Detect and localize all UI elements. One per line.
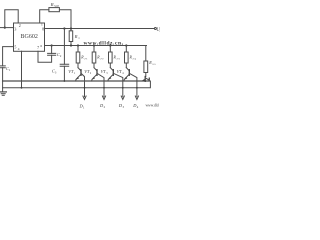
- wire pin3 input: [0, 27, 14, 29]
- node junction Rscp / net A: [70, 27, 72, 29]
- node junction pin3: [4, 27, 6, 29]
- IC U1 BG602 timer: [14, 23, 45, 51]
- svg-text:7: 7: [37, 45, 39, 50]
- wire pin4 stub: [21, 51, 23, 88]
- transistor Q1 VT1: [68, 63, 84, 88]
- resistor Rscp: [49, 2, 60, 12]
- resistor R2-3: [109, 46, 121, 64]
- terminal D2 arrow: [99, 87, 106, 109]
- node junction R1 / net B: [70, 44, 72, 46]
- node junction R2-4 / net B: [125, 44, 127, 46]
- svg-text:6: 6: [40, 44, 42, 48]
- terminal D4 arrow: [132, 87, 139, 109]
- resistor R2-1: [76, 46, 88, 64]
- terminal D1 arrow: [79, 87, 87, 110]
- node junction R2-3 / net B: [109, 44, 111, 46]
- wire pin7 loop: [38, 51, 52, 62]
- node junction R2-2 / net B: [93, 44, 95, 46]
- svg-text:SCP: SCP: [54, 5, 59, 8]
- transistor Q3 VT3: [101, 63, 123, 88]
- svg-text:3: 3: [14, 27, 16, 32]
- svg-text:BG602: BG602: [21, 34, 38, 40]
- svg-text:5: 5: [14, 45, 16, 50]
- svg-text:2: 2: [19, 23, 21, 28]
- wire pin2 feedback loop: [5, 10, 18, 28]
- wire net B pin6 rail: [45, 45, 147, 47]
- resistor R2-5: [144, 61, 156, 73]
- wire net B down to R2-5: [145, 46, 147, 62]
- wire pin5: [3, 47, 14, 66]
- svg-text:R: R: [50, 2, 54, 7]
- node junction R2-1 / net B: [77, 44, 79, 46]
- capacitor C3: [52, 29, 69, 82]
- resistor R2-2: [92, 46, 104, 64]
- node U_o terminal: [154, 28, 156, 30]
- node C3-rail junction: [64, 80, 66, 82]
- node C2 top junction: [51, 44, 53, 46]
- node junction C3 / net A: [63, 27, 65, 29]
- ground: [0, 88, 6, 96]
- capacitor C2: [48, 46, 62, 59]
- node label U_o: [156, 28, 161, 33]
- svg-text:8: 8: [42, 27, 44, 32]
- node pin4-rail junction: [21, 87, 23, 89]
- wire emitter ground rail: [3, 78, 150, 81]
- wire Rscp right to net A: [59, 10, 71, 31]
- resistor R1: [69, 31, 80, 46]
- wire net A pin8 output line: [45, 28, 155, 30]
- transistor Q5 VT5: [142, 73, 149, 82]
- svg-text:www.dld: www.dld: [146, 104, 159, 108]
- svg-text:www.dlldz.cn,: www.dlldz.cn,: [84, 41, 124, 47]
- transistor Q4 VT4: [117, 63, 137, 88]
- resistor R2-4: [125, 46, 137, 64]
- terminal D3 arrow: [118, 87, 125, 109]
- capacitor C1: [0, 66, 11, 88]
- svg-text:4: 4: [18, 47, 20, 51]
- transistor Q2 VT2: [84, 63, 104, 88]
- wire output common rail: [3, 81, 151, 88]
- svg-text:R: R: [74, 34, 78, 39]
- wire pin1 stub: [40, 10, 49, 23]
